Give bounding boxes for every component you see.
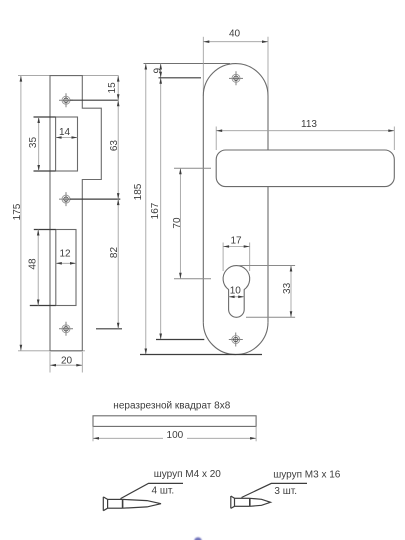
top extension line at plate top [144, 63, 231, 65]
plate bottom extension line [140, 354, 262, 356]
handle lever [216, 150, 394, 187]
dimension 17 line [223, 246, 250, 248]
svg-text:185: 185 [133, 183, 144, 200]
svg-text:40: 40 [229, 29, 241, 40]
dimension 175 line [20, 76, 22, 351]
svg-text:175: 175 [12, 203, 23, 220]
strike plate outline with right lip [50, 76, 101, 351]
svg-text:82: 82 [109, 247, 120, 259]
hole H2 extension line [70, 198, 121, 200]
dimension 48 extension lines [34, 229, 56, 231]
dimension 14 line [56, 137, 78, 139]
screw hole H1 [59, 93, 73, 107]
upper cutout 14x35 [56, 117, 78, 171]
screw hole H2 [59, 192, 73, 206]
screw hole H3 [59, 322, 73, 336]
dimension chain 15/63/82 line [117, 76, 119, 329]
svg-text:167: 167 [150, 202, 161, 219]
svg-text:113: 113 [301, 119, 317, 130]
extension line bottom (plate bottom level) [18, 350, 85, 352]
svg-text:4 шт.: 4 шт. [152, 486, 175, 497]
svg-text:70: 70 [172, 217, 183, 229]
hole H3 extension line [96, 328, 122, 330]
screw S2 (M3 x 16) [231, 496, 271, 508]
top screw hole [229, 71, 243, 85]
dimension 20 line [50, 364, 82, 366]
dimension 33 extension lines [239, 265, 295, 267]
bottom screw hole [229, 333, 243, 347]
svg-text:10: 10 [230, 285, 242, 296]
screw S1 (M4 x 20) [103, 497, 161, 511]
dimension 100 label [163, 430, 187, 440]
svg-text:15: 15 [107, 82, 118, 94]
svg-text:63: 63 [109, 140, 120, 152]
dimension 113 line [216, 130, 394, 132]
dimension 17 extension lines [222, 243, 224, 272]
extension line top (plate top level) [18, 75, 119, 77]
dimension 9/167 chain line [160, 64, 162, 340]
dimension 48 line [37, 230, 39, 306]
dimension 35 line [38, 117, 40, 171]
svg-text:шуруп М3 х 16: шуруп М3 х 16 [273, 470, 341, 481]
lower cutout 12x48 [56, 230, 76, 306]
dimension 100 line [93, 437, 256, 439]
svg-text:14: 14 [59, 127, 71, 138]
svg-text:48: 48 [28, 258, 39, 270]
screw S2 leader [242, 483, 308, 497]
euro cylinder keyhole [223, 266, 250, 318]
dimension 33 line [290, 266, 292, 318]
dimension 40 extension lines [202, 37, 204, 96]
dimension 35 extension lines [34, 116, 56, 118]
hole H1 extension line [70, 99, 119, 101]
dimension 70 line [179, 168, 181, 278]
dimension 185 line [145, 64, 147, 355]
svg-text:35: 35 [28, 137, 39, 149]
svg-text:12: 12 [59, 249, 71, 260]
bottom hole extension line [156, 339, 204, 341]
screw S1 leader [121, 483, 184, 498]
dimension 12 line [56, 262, 76, 264]
svg-text:100: 100 [167, 430, 184, 441]
dimension 10 line [229, 296, 245, 298]
square bar body [93, 416, 256, 427]
dimension 100 extension lines [92, 426, 94, 441]
handle plate bottom arc [203, 322, 268, 354]
svg-text:неразрезной квадрат 8х8: неразрезной квадрат 8х8 [113, 401, 230, 412]
dimension 113 extension lines [215, 127, 217, 151]
handle plate outline [203, 64, 268, 323]
svg-text:17: 17 [230, 236, 242, 247]
dimension 70 extension lines [174, 167, 211, 169]
top hole extension line [159, 77, 202, 79]
svg-text:шуруп М4 х 20: шуруп М4 х 20 [154, 469, 222, 480]
dimension 40 line [203, 41, 268, 43]
svg-text:33: 33 [282, 282, 293, 294]
svg-text:20: 20 [61, 355, 73, 366]
dimension 20 extension lines [49, 352, 51, 373]
svg-text:3 шт.: 3 шт. [274, 486, 297, 497]
